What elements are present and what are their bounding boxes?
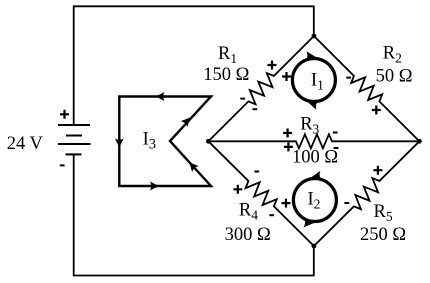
mesh current loop I1 (clockwise circle) <box>292 51 335 109</box>
node right <box>417 139 422 144</box>
svg-text:150 Ω: 150 Ω <box>203 65 249 85</box>
svg-text:24 V: 24 V <box>7 134 44 154</box>
wire bottom-left loop: battery bottom to bottom node <box>74 154 314 275</box>
battery - sign <box>60 164 65 166</box>
svg-text:50 Ω: 50 Ω <box>376 67 413 87</box>
resistor R4 (arm left node to bottom node) <box>208 141 314 246</box>
node bottom <box>312 244 317 249</box>
node top <box>312 34 317 39</box>
svg-text:300 Ω: 300 Ω <box>225 225 271 245</box>
polarity marks R1 <box>268 61 292 82</box>
wire top-left loop: battery top to top node <box>74 6 314 125</box>
svg-text:100 Ω: 100 Ω <box>292 148 338 168</box>
resistor R5 (arm bottom node to right node) <box>314 141 420 246</box>
polarity marks R3 <box>283 129 293 152</box>
mesh current loop I2 (counterclockwise circle) <box>293 171 336 228</box>
polarity marks R2 <box>346 77 351 79</box>
battery + sign <box>60 110 69 119</box>
mesh current loop I3 (left polygon, counterclockwise) <box>115 92 211 190</box>
resistor R1 (arm left node to top node) <box>208 36 314 141</box>
svg-text:250 Ω: 250 Ω <box>360 225 406 245</box>
polarity marks R4 <box>254 171 259 173</box>
resistor R2 (arm top node to right node) <box>314 36 420 141</box>
polarity marks R5 <box>373 166 382 175</box>
node left <box>206 139 211 144</box>
battery 24V <box>58 125 91 154</box>
resistor R3 (horizontal arm) <box>208 134 419 148</box>
